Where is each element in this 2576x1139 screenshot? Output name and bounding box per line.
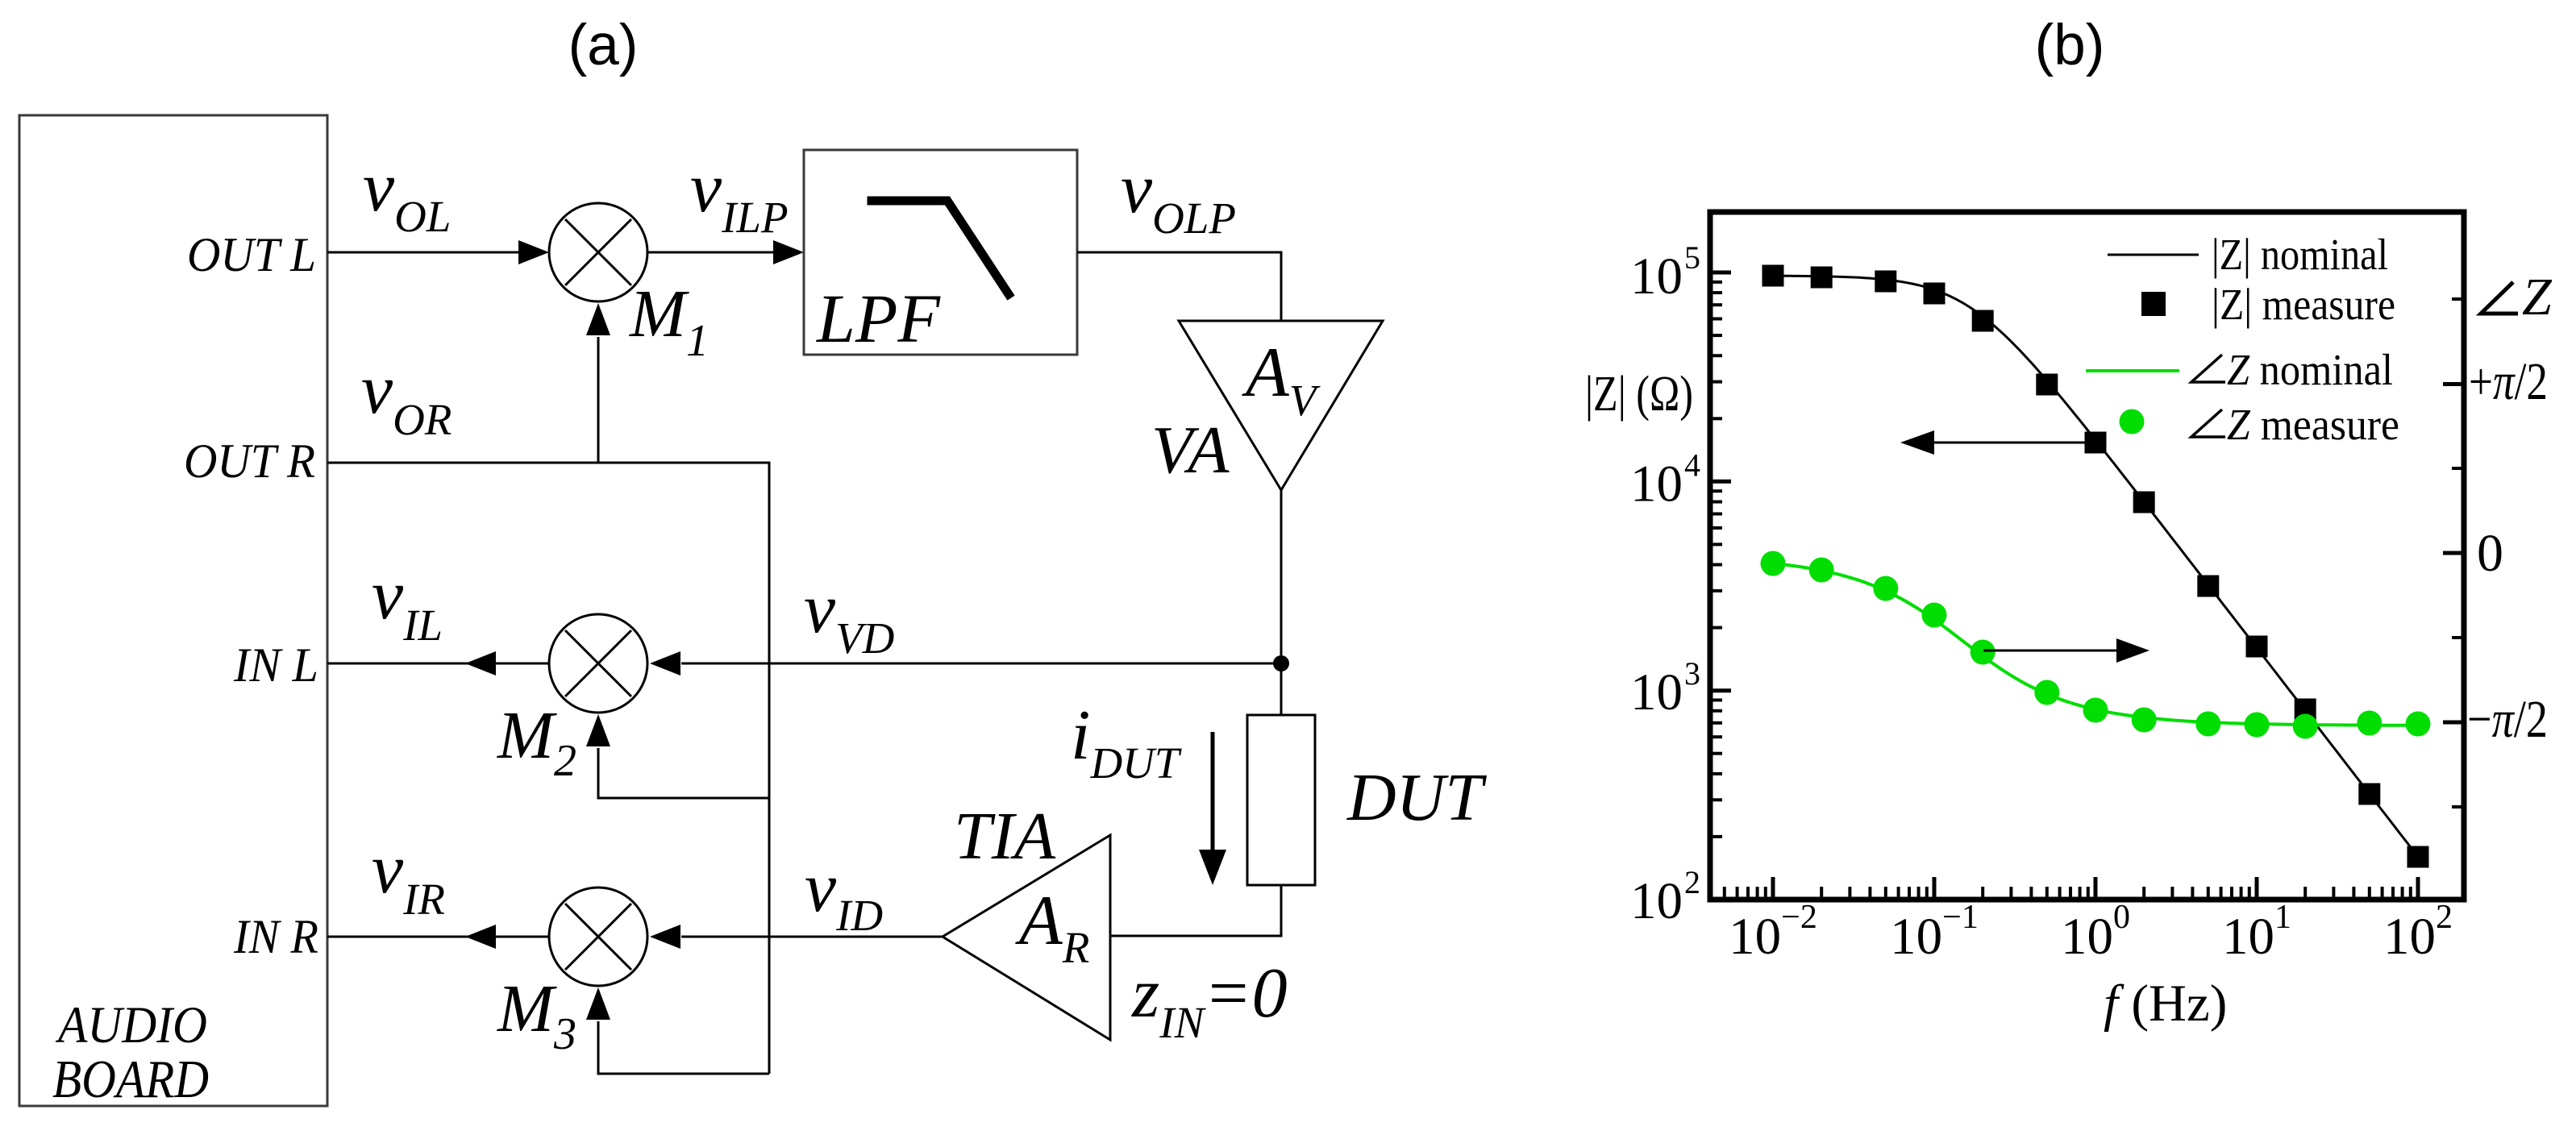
annotation arrow to right axis xyxy=(1983,650,2119,652)
svg-text:−π/2: −π/2 xyxy=(2467,690,2548,749)
amplifier TIA triangle xyxy=(943,835,1110,1040)
curve angle Z nominal xyxy=(1773,563,2418,725)
svg-text:BOARD: BOARD xyxy=(52,1050,209,1109)
svg-text:4: 4 xyxy=(1684,447,1700,483)
svg-text:Z nominal: Z nominal xyxy=(2227,345,2393,394)
svg-text:2: 2 xyxy=(1684,864,1700,900)
wire vVD: node to mixer M2 xyxy=(681,663,1281,665)
svg-text:10: 10 xyxy=(1630,663,1683,721)
svg-text:3: 3 xyxy=(1684,655,1700,692)
legend line angle Z nominal xyxy=(2086,369,2179,372)
svg-text:OUT R: OUT R xyxy=(184,434,315,488)
svg-text:Z: Z xyxy=(2522,268,2553,326)
audio board box xyxy=(19,115,327,1106)
wire vIR: M3 to IN R xyxy=(327,936,549,938)
svg-text:LPF: LPF xyxy=(815,280,941,357)
legend marker |Z| measure xyxy=(2141,292,2166,316)
svg-text:OUT L: OUT L xyxy=(187,228,316,281)
annotation arrow to left axis xyxy=(1932,442,2095,444)
wire vOR: OUT R carrier bus xyxy=(327,463,769,1074)
wire vID: TIA to mixer M3 xyxy=(681,936,943,938)
data points |Z| measure (black squares) xyxy=(1762,265,2429,868)
svg-text:|Z| measure: |Z| measure xyxy=(2212,280,2395,329)
wire carrier to M2 xyxy=(598,748,769,798)
amplifier VA triangle xyxy=(1179,321,1383,490)
svg-text:f (Hz): f (Hz) xyxy=(2104,975,2227,1033)
svg-text:VA: VA xyxy=(1151,413,1230,488)
axis ticks xyxy=(1710,272,2464,900)
svg-text:|Z| (Ω): |Z| (Ω) xyxy=(1585,367,1693,422)
wire vOLP: LPF to VA xyxy=(1077,252,1281,321)
svg-text:IN R: IN R xyxy=(233,910,318,963)
svg-text:10: 10 xyxy=(1630,455,1683,513)
svg-text:(a): (a) xyxy=(568,14,639,77)
mixer M2 xyxy=(549,614,647,713)
mixer M3 xyxy=(549,888,647,986)
wire carrier to M1 xyxy=(597,337,600,463)
svg-text:Z measure: Z measure xyxy=(2227,400,2399,449)
wire vILP: M1 to LPF xyxy=(647,251,774,254)
mixer M1 xyxy=(549,203,647,301)
svg-text:10: 10 xyxy=(1630,872,1683,930)
LPF block xyxy=(804,150,1077,355)
svg-text:10: 10 xyxy=(1630,247,1683,306)
svg-text:+π/2: +π/2 xyxy=(2469,352,2548,411)
chart frame xyxy=(1710,212,2464,900)
wire DUT to TIA xyxy=(1111,885,1281,936)
data points angle Z measure (green circles) xyxy=(1761,551,2431,739)
svg-text:IN L: IN L xyxy=(233,638,318,692)
DUT rectangle xyxy=(1247,715,1315,885)
svg-text:|Z| nominal: |Z| nominal xyxy=(2212,230,2388,279)
svg-text:DUT: DUT xyxy=(1346,760,1487,835)
wire vOL: OUT L to mixer M1 xyxy=(327,251,519,254)
legend line |Z| nominal xyxy=(2108,254,2199,256)
wire VA output to node xyxy=(1280,490,1283,663)
legend marker angle Z measure xyxy=(2120,409,2145,434)
curve |Z| nominal xyxy=(1773,276,2418,857)
wire node to DUT xyxy=(1280,663,1283,715)
svg-text:(b): (b) xyxy=(2035,14,2105,77)
current arrow iDUT xyxy=(1211,732,1215,853)
svg-text:5: 5 xyxy=(1684,239,1700,276)
right axis title angle Z xyxy=(2481,282,2518,314)
node junction dot xyxy=(1273,655,1289,671)
svg-text:TIA: TIA xyxy=(954,799,1056,874)
svg-text:0: 0 xyxy=(2477,524,2503,583)
wire carrier to M3 xyxy=(598,1021,769,1074)
svg-text:AUDIO: AUDIO xyxy=(55,996,207,1054)
wire vIL: M2 to IN L xyxy=(327,663,549,665)
LPF response symbol xyxy=(872,201,1009,294)
